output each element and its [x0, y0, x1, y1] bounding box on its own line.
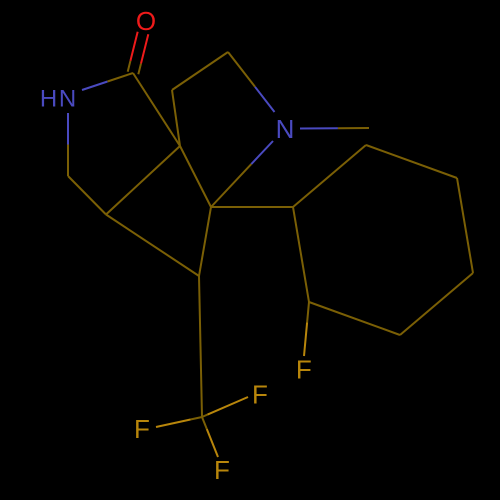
svg-text:F: F — [214, 455, 230, 485]
svg-text:F: F — [252, 380, 268, 410]
svg-text:N: N — [276, 114, 295, 144]
svg-text:N: N — [59, 86, 76, 113]
svg-text:H: H — [40, 86, 57, 113]
svg-text:O: O — [136, 6, 156, 36]
svg-text:F: F — [296, 355, 312, 385]
svg-text:F: F — [134, 414, 150, 444]
